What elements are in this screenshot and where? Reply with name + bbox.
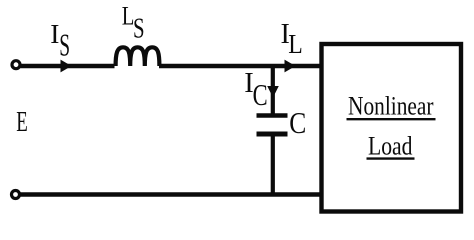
wire top segment from inductor to load box <box>159 64 321 68</box>
wire top segment from source to inductor <box>21 64 115 68</box>
arrowhead for Is <box>61 60 72 73</box>
terminal circle top-left <box>12 61 20 69</box>
svg-text:C: C <box>289 105 306 140</box>
arrowhead for IL <box>285 60 296 73</box>
svg-text:S: S <box>133 14 145 45</box>
wire bottom segment <box>20 192 321 196</box>
svg-text:C: C <box>253 77 268 112</box>
svg-text:Load: Load <box>368 132 413 161</box>
nonlinear load box <box>322 44 462 212</box>
svg-text:Nonlinear: Nonlinear <box>348 92 434 121</box>
svg-text:E: E <box>16 106 28 138</box>
svg-text:S: S <box>59 27 70 62</box>
capacitor C top plate <box>257 113 288 117</box>
inductor LS <box>116 47 160 66</box>
capacitor C bottom plate <box>257 132 288 137</box>
wire capacitor branch lower <box>271 134 275 196</box>
wire capacitor branch upper <box>271 64 275 116</box>
svg-text:L: L <box>288 28 303 59</box>
svg-text:I: I <box>50 18 59 49</box>
terminal circle bottom-left <box>12 191 20 199</box>
arrowhead for Ic (down) <box>267 86 279 98</box>
